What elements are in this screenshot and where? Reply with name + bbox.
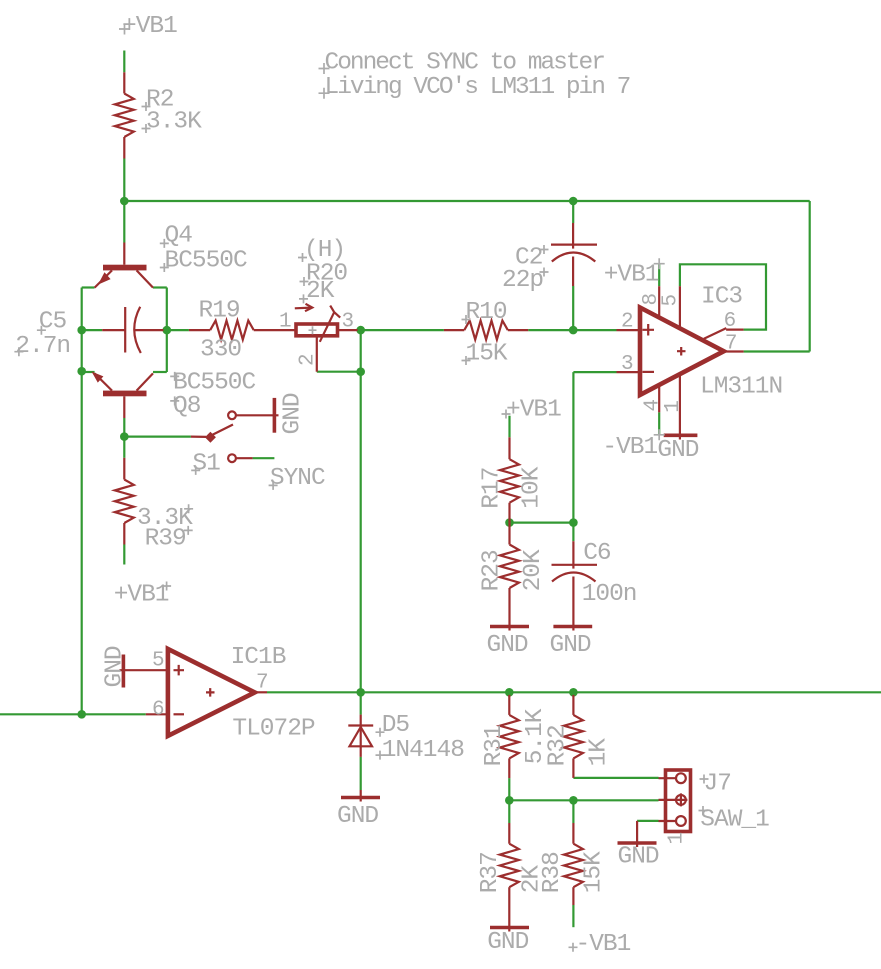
value 330 xyxy=(200,337,241,364)
junction R32 / output bus xyxy=(569,688,578,697)
ground D5 xyxy=(341,790,380,802)
svg-text:3.3K: 3.3K xyxy=(146,109,202,136)
wire R17 R23 junction link xyxy=(510,521,574,523)
svg-text:+VB1: +VB1 xyxy=(122,13,177,40)
svg-text:+VB1: +VB1 xyxy=(604,262,659,289)
svg-text:IC1B: IC1B xyxy=(231,644,286,671)
pin 7 IC3 xyxy=(725,333,738,356)
junction C2 / R10 / IC3 pin2 xyxy=(569,326,578,335)
value BC550C (Q4) xyxy=(160,248,247,275)
ground R37 xyxy=(490,926,529,930)
op-amp IC1B TL072P xyxy=(119,649,267,736)
svg-text:R37: R37 xyxy=(477,852,504,893)
ground label S1 (rotated) xyxy=(280,393,307,434)
supply -VB1 IC3 xyxy=(602,429,664,461)
pin 3 IC3 xyxy=(621,353,634,376)
svg-text:15K: 15K xyxy=(580,851,607,893)
wire IC3 pin3 horizontal xyxy=(573,371,616,373)
junction left rail / IC1B pin6 xyxy=(77,710,86,719)
label R10 xyxy=(462,299,507,326)
wire R38 to -VB1 xyxy=(572,905,574,927)
label C5 xyxy=(37,309,67,336)
svg-text:GND: GND xyxy=(487,929,528,956)
wire to IC3 pin7 xyxy=(744,350,810,352)
svg-text:R39: R39 xyxy=(145,526,186,553)
pin 7 IC1B xyxy=(256,672,269,695)
svg-text:R17: R17 xyxy=(479,468,506,509)
wire R31 top xyxy=(508,692,510,695)
resistor R19 xyxy=(189,321,295,340)
wire Q8 collector corner xyxy=(153,371,167,373)
svg-text:+VB1: +VB1 xyxy=(114,582,169,609)
junction C5 right / R19 xyxy=(163,326,172,335)
svg-text:GND: GND xyxy=(618,844,659,871)
value LM311N xyxy=(700,373,782,400)
label (H) xyxy=(298,237,345,264)
ground J7 xyxy=(618,821,657,847)
transistor Q8 xyxy=(92,372,154,419)
capacitor C6 xyxy=(552,541,598,630)
pin 4 IC3 xyxy=(641,399,664,412)
pin 1 J7 xyxy=(666,832,689,845)
value BC550C (Q8) xyxy=(170,370,255,397)
wire IC3 pin8 supply xyxy=(658,264,660,287)
svg-text:TL072P: TL072P xyxy=(232,716,315,743)
value SAW_1 xyxy=(699,806,770,834)
ground label D5 xyxy=(337,803,378,830)
potentiometer R20 xyxy=(295,304,358,372)
svg-text:R10: R10 xyxy=(466,299,507,326)
value 15K xyxy=(462,340,508,367)
label IC3 xyxy=(701,284,742,311)
wire C5 to R19 xyxy=(167,329,189,331)
label S1 xyxy=(191,451,220,478)
value 3.3K (R39) xyxy=(137,504,193,532)
ground label J7 xyxy=(618,844,659,871)
svg-text:R31: R31 xyxy=(481,725,508,766)
wire Q8 base down xyxy=(123,418,125,437)
svg-text:-VB1: -VB1 xyxy=(602,434,657,461)
node +VB1 top xyxy=(119,13,177,40)
wire right vertical bus xyxy=(809,201,811,352)
junction D5 / output bus xyxy=(356,688,365,697)
svg-text:R38: R38 xyxy=(539,852,566,893)
ground label IC3 pin1 xyxy=(657,437,698,464)
label R17 xyxy=(479,468,506,509)
label R32 xyxy=(545,725,572,766)
svg-text:R19: R19 xyxy=(199,298,240,325)
pin 5 IC3 xyxy=(659,294,682,307)
label IC1B xyxy=(231,644,286,671)
value 5.1K xyxy=(522,708,549,764)
resistor R39 xyxy=(115,458,134,545)
ground C6 xyxy=(553,625,592,629)
supply +VB1 Q8 xyxy=(114,582,171,609)
wire R39 to +VB1 xyxy=(123,545,125,565)
value 22p xyxy=(502,267,549,294)
net SYNC xyxy=(269,465,325,492)
svg-text:2K: 2K xyxy=(306,278,335,305)
svg-text:1: 1 xyxy=(662,400,685,413)
svg-text:1N4148: 1N4148 xyxy=(382,737,465,764)
label D5 xyxy=(376,712,410,739)
svg-text:GND: GND xyxy=(337,803,378,830)
svg-text:J7: J7 xyxy=(704,771,731,798)
comparator IC3 LM311N xyxy=(617,286,744,433)
label R39 xyxy=(145,526,193,553)
junction R20 pin3 node xyxy=(356,326,365,335)
value 2K xyxy=(518,865,545,894)
junction R17 / R23 xyxy=(505,518,514,527)
wire R10 to C2 node xyxy=(528,329,573,331)
label R2 xyxy=(142,87,174,114)
value 1N4148 xyxy=(376,737,465,764)
value 2K xyxy=(299,278,335,305)
capacitor C5 xyxy=(102,307,163,353)
svg-text:SAW_1: SAW_1 xyxy=(700,807,769,834)
svg-text:C5: C5 xyxy=(39,309,67,336)
transistor Q4 xyxy=(95,243,153,288)
note line 2 xyxy=(319,74,630,101)
resistor R32 xyxy=(564,695,583,778)
label R19 xyxy=(199,298,240,325)
wire base node to switch xyxy=(124,436,191,438)
wire bus to Q4 base xyxy=(123,201,125,243)
svg-text:GND: GND xyxy=(280,393,307,434)
junction C6 / pin3 net xyxy=(569,518,578,527)
ground switch S1 (rotated) xyxy=(273,398,277,433)
wire C2 top xyxy=(572,201,574,223)
resistor R23 xyxy=(500,523,519,631)
wire node to IC3 pin2 xyxy=(573,329,616,331)
label C6 xyxy=(583,540,611,567)
wire +VB1 to R2 xyxy=(123,51,125,73)
label R20 xyxy=(300,261,348,288)
wire Q4 collector corner xyxy=(153,286,167,288)
junction R31 / lower bus xyxy=(505,796,514,805)
wire node to R10 xyxy=(361,329,444,331)
ground label IC1B (rotated) xyxy=(102,646,129,687)
svg-text:3: 3 xyxy=(621,353,634,376)
ground bar IC3 pin1 xyxy=(664,434,698,440)
wire right rail xyxy=(166,288,168,373)
svg-text:Connect SYNC to master: Connect SYNC to master xyxy=(325,50,605,77)
wire lower bus to R37 xyxy=(508,800,510,823)
svg-text:+VB1: +VB1 xyxy=(506,397,561,424)
svg-text:Q8: Q8 xyxy=(173,393,201,420)
junction R2 / top bus xyxy=(120,197,129,206)
pin 5 IC1B xyxy=(152,650,165,673)
label Q8 xyxy=(170,393,201,420)
supply +VB1 R17 xyxy=(502,397,562,424)
resistor R37 xyxy=(500,823,519,932)
label R37 xyxy=(477,852,504,893)
svg-text:1: 1 xyxy=(279,311,292,334)
svg-text:BC550C: BC550C xyxy=(165,248,248,275)
wire lower bus to J7 pin2 xyxy=(509,799,658,801)
wire left rail xyxy=(81,288,83,715)
svg-text:IC3: IC3 xyxy=(701,284,742,311)
value 15K xyxy=(580,851,607,893)
wire R32 top xyxy=(572,692,574,695)
svg-text:7: 7 xyxy=(256,672,269,695)
resistor R17 xyxy=(500,437,519,522)
svg-text:GND: GND xyxy=(657,437,698,464)
supply +VB1 IC3 xyxy=(604,258,665,288)
junction Q8 base / S1 / R39 xyxy=(120,432,129,441)
ground label C6 xyxy=(550,632,591,659)
wire node down to output bus xyxy=(360,330,362,692)
svg-text:22p: 22p xyxy=(502,267,543,294)
resistor R2 xyxy=(115,72,134,158)
svg-text:1K: 1K xyxy=(586,738,613,767)
ground R23 xyxy=(490,625,529,629)
svg-text:7: 7 xyxy=(725,333,738,356)
pin 2 IC3 xyxy=(621,311,634,334)
junction Q8 emitter / rail xyxy=(77,367,86,376)
label C2 xyxy=(515,245,549,272)
wire C2 bottom xyxy=(572,286,574,330)
svg-text:-VB1: -VB1 xyxy=(576,931,631,958)
junction C5 left / rail xyxy=(77,326,86,335)
svg-text:C6: C6 xyxy=(583,540,611,567)
junction R38 / lower bus xyxy=(569,796,578,805)
wire IC1B pin6 from left edge xyxy=(0,713,146,715)
label Q4 xyxy=(160,223,192,250)
junction C2 / top bus xyxy=(569,197,578,206)
svg-text:R32: R32 xyxy=(545,725,572,766)
svg-text:5: 5 xyxy=(152,650,165,673)
svg-text:GND: GND xyxy=(487,632,528,659)
connector J7 xyxy=(659,770,691,832)
wire pot wiper elbow xyxy=(317,371,361,373)
label J7 xyxy=(700,771,731,798)
svg-text:R23: R23 xyxy=(479,550,506,591)
wire R31 bottom to lower bus xyxy=(508,778,510,800)
wire R32 elbow to J7 pin1 xyxy=(573,777,658,779)
diode D5 xyxy=(348,715,373,757)
svg-text:SYNC: SYNC xyxy=(270,465,325,492)
svg-text:Living VCO's LM311 pin 7: Living VCO's LM311 pin 7 xyxy=(325,74,630,101)
svg-text:5: 5 xyxy=(659,294,682,307)
value TL072P xyxy=(232,716,315,743)
pin 1 R20 xyxy=(279,311,292,334)
svg-text:10K: 10K xyxy=(518,466,545,508)
junction R20 wiper node xyxy=(356,367,365,376)
pin 6 IC3 xyxy=(724,310,737,333)
wire R2 to top bus xyxy=(123,159,125,202)
wire node to R39 xyxy=(123,437,125,458)
value 20K xyxy=(520,549,547,591)
resistor R38 xyxy=(564,823,583,905)
svg-text:6: 6 xyxy=(152,699,165,722)
label R38 xyxy=(539,852,566,893)
svg-text:2: 2 xyxy=(621,311,634,334)
wire top bus horizontal xyxy=(124,200,809,202)
label R23 xyxy=(479,550,506,591)
label R31 xyxy=(481,725,508,766)
value 1K xyxy=(586,738,613,767)
wire SYNC stub xyxy=(253,457,275,459)
value 100n xyxy=(582,581,637,608)
svg-text:2.7n: 2.7n xyxy=(15,333,70,360)
svg-text:D5: D5 xyxy=(382,712,410,739)
svg-text:GND: GND xyxy=(102,646,129,687)
switch S1 xyxy=(191,411,279,462)
svg-text:GND: GND xyxy=(550,632,591,659)
ground bar IC1B pin5 (rotated) xyxy=(122,655,126,688)
svg-text:100n: 100n xyxy=(582,581,637,608)
svg-text:S1: S1 xyxy=(192,451,220,478)
svg-text:20K: 20K xyxy=(520,549,547,591)
wire D5 top xyxy=(360,692,362,714)
note line 1 xyxy=(319,50,605,77)
wire IC3 pin5 balance loop xyxy=(680,264,766,329)
wire Q4 emitter corner xyxy=(82,286,95,288)
wire pin3 net vertical xyxy=(572,372,574,522)
wire Q8 emitter corner xyxy=(82,371,95,373)
wire lower bus to R38 xyxy=(572,800,574,823)
ground label R23 xyxy=(487,632,528,659)
svg-text:15K: 15K xyxy=(466,340,508,367)
value 2.7n xyxy=(14,333,70,360)
svg-text:3: 3 xyxy=(342,311,355,334)
wire output bus xyxy=(267,691,881,693)
wire IC3 pin4 supply xyxy=(658,412,660,435)
value 3.3K xyxy=(142,109,203,136)
wire C5 left xyxy=(82,329,103,331)
resistor R10 xyxy=(444,321,528,340)
pin 1 IC3 xyxy=(662,400,685,413)
pin 3 R20 xyxy=(342,311,355,334)
svg-text:LM311N: LM311N xyxy=(700,373,782,400)
svg-text:1: 1 xyxy=(666,832,689,845)
wire J7 pin3 elbow xyxy=(637,820,658,822)
wire D5 bottom to GND xyxy=(360,757,362,790)
supply -VB1 R38 xyxy=(569,931,631,958)
pin 6 IC1B xyxy=(152,699,165,722)
svg-text:330: 330 xyxy=(200,337,241,364)
resistor R31 xyxy=(500,695,519,778)
svg-text:2: 2 xyxy=(297,353,320,366)
wire pot pin3 to node xyxy=(358,329,364,331)
pin 8 IC3 xyxy=(640,293,663,306)
svg-text:6: 6 xyxy=(724,310,737,333)
capacitor C2 xyxy=(551,223,597,286)
ground label R37 xyxy=(487,929,528,956)
wire C5 right xyxy=(164,329,167,331)
wire +VB1 to R17 xyxy=(508,416,510,438)
svg-text:Q4: Q4 xyxy=(165,223,193,250)
value 10K xyxy=(518,466,545,508)
junction R31 / output bus xyxy=(505,688,514,697)
pin 2 R20 xyxy=(297,353,320,366)
wire junction to C6 xyxy=(572,523,574,542)
